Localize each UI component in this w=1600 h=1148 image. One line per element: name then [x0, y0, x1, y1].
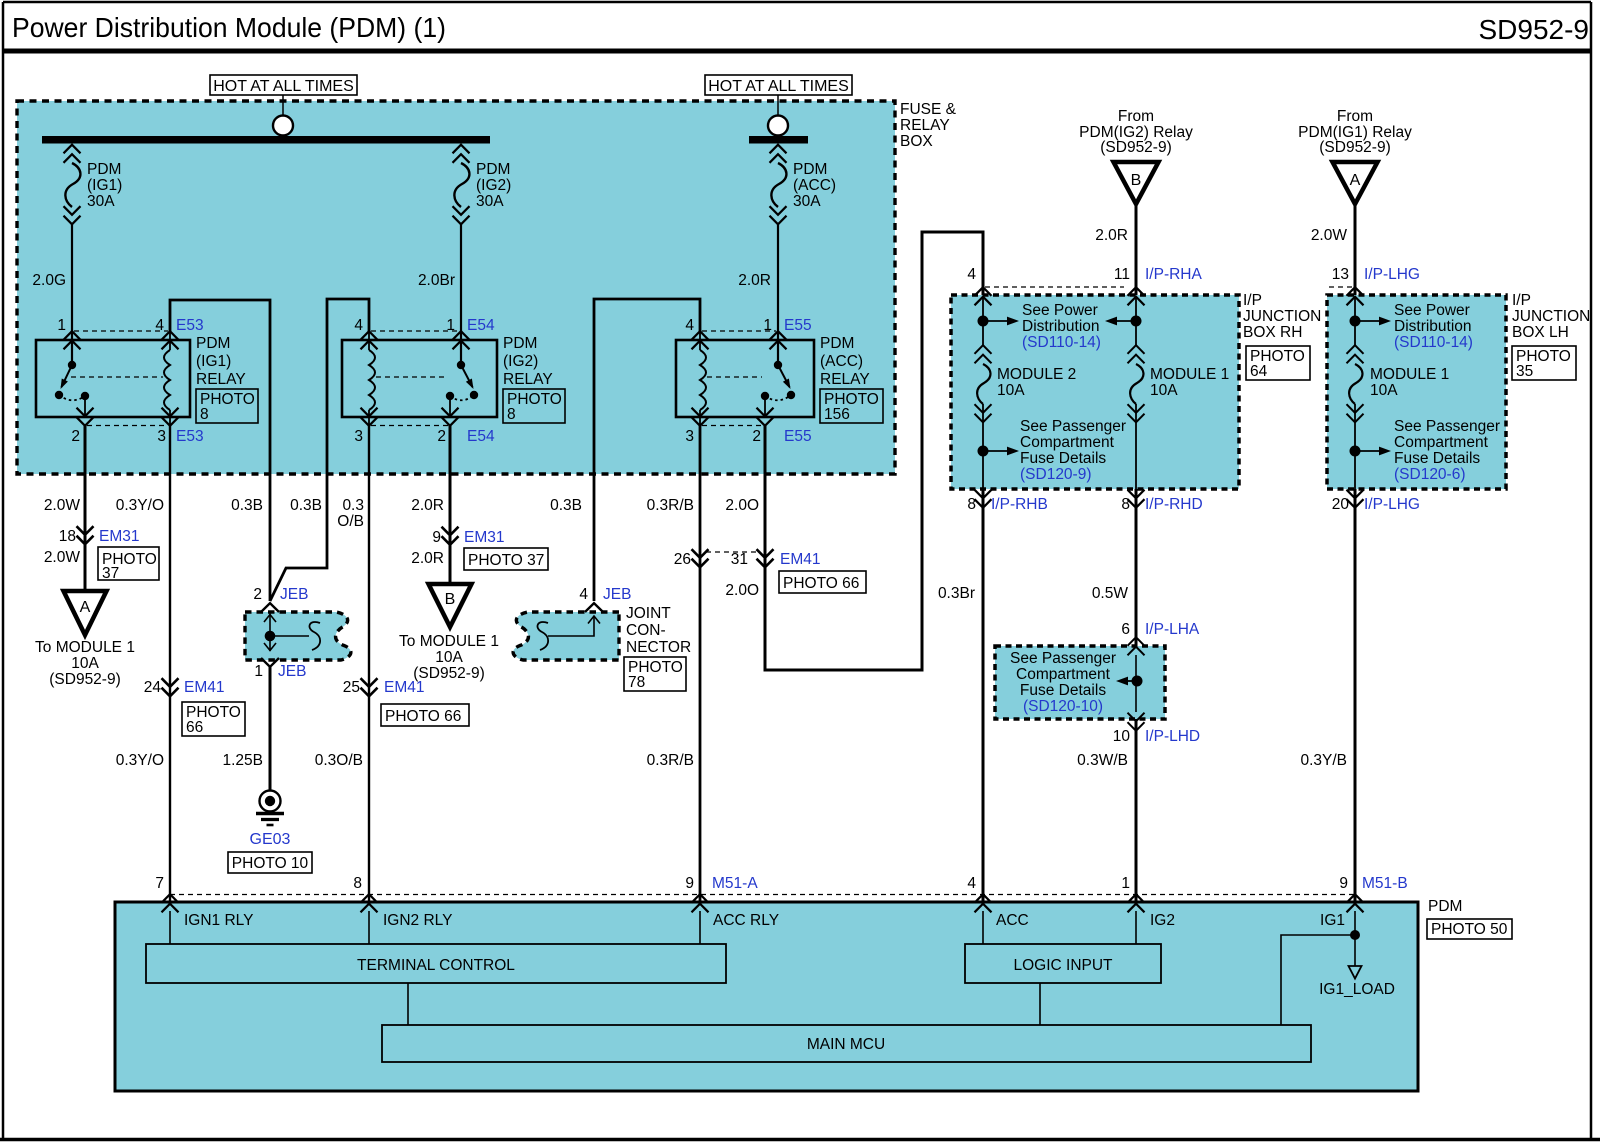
- svg-text:(IG2): (IG2): [476, 177, 511, 194]
- svg-text:(ACC): (ACC): [820, 353, 863, 370]
- svg-text:31: 31: [731, 551, 748, 568]
- svg-text:RELAY: RELAY: [900, 117, 950, 134]
- svg-text:10A: 10A: [1150, 382, 1178, 399]
- svg-text:1: 1: [763, 317, 772, 334]
- svg-text:I/P: I/P: [1243, 292, 1262, 309]
- svg-text:26: 26: [674, 551, 691, 568]
- svg-text:9: 9: [685, 875, 694, 892]
- svg-text:B: B: [445, 591, 456, 608]
- svg-text:0.3B: 0.3B: [290, 497, 322, 514]
- svg-text:0.3Br: 0.3Br: [938, 585, 975, 602]
- svg-text:EM41: EM41: [184, 679, 225, 696]
- svg-text:8: 8: [507, 406, 516, 423]
- svg-text:I/P-RHA: I/P-RHA: [1145, 266, 1203, 283]
- svg-text:FUSE &: FUSE &: [900, 101, 957, 118]
- svg-text:24: 24: [144, 679, 162, 696]
- svg-text:4: 4: [579, 586, 588, 603]
- svg-text:MODULE 1: MODULE 1: [1370, 366, 1449, 383]
- svg-text:PDM: PDM: [1428, 898, 1462, 915]
- svg-text:NECTOR: NECTOR: [626, 639, 691, 656]
- svg-text:10A: 10A: [71, 655, 99, 672]
- svg-text:BOX: BOX: [900, 133, 933, 150]
- svg-text:2: 2: [752, 428, 761, 445]
- svg-text:PDM: PDM: [503, 335, 537, 352]
- svg-text:0.3Y/O: 0.3Y/O: [116, 497, 164, 514]
- svg-text:PHOTO 66: PHOTO 66: [385, 708, 461, 725]
- svg-text:0.5W: 0.5W: [1092, 585, 1129, 602]
- svg-text:2: 2: [437, 428, 446, 445]
- svg-text:8: 8: [200, 406, 209, 423]
- svg-text:2.0R: 2.0R: [411, 550, 444, 567]
- svg-text:A: A: [80, 599, 91, 616]
- svg-text:I/P-RHD: I/P-RHD: [1145, 496, 1203, 513]
- svg-text:See Passenger: See Passenger: [1020, 418, 1126, 435]
- svg-text:30A: 30A: [87, 193, 115, 210]
- svg-text:0.3O/B: 0.3O/B: [315, 752, 363, 769]
- svg-text:0.3R/B: 0.3R/B: [647, 497, 694, 514]
- svg-text:1.25B: 1.25B: [222, 752, 263, 769]
- svg-text:2.0O: 2.0O: [725, 497, 759, 514]
- svg-text:PHOTO 10: PHOTO 10: [232, 855, 309, 872]
- svg-text:BOX LH: BOX LH: [1512, 324, 1569, 341]
- svg-text:1: 1: [446, 317, 455, 334]
- svg-text:3: 3: [685, 428, 694, 445]
- svg-text:(IG1): (IG1): [196, 353, 231, 370]
- svg-text:From: From: [1337, 108, 1373, 125]
- svg-text:Compartment: Compartment: [1020, 434, 1115, 451]
- svg-text:(SD952-9): (SD952-9): [1100, 139, 1172, 156]
- svg-text:PDM: PDM: [196, 335, 230, 352]
- svg-text:8: 8: [1121, 496, 1130, 513]
- svg-text:E54: E54: [467, 428, 495, 445]
- svg-text:0.3Y/O: 0.3Y/O: [116, 752, 164, 769]
- svg-text:CON-: CON-: [626, 622, 666, 639]
- svg-text:Power Distribution Module (PDM: Power Distribution Module (PDM) (1): [12, 12, 446, 43]
- svg-text:See Power: See Power: [1394, 302, 1470, 319]
- svg-text:2.0R: 2.0R: [411, 497, 444, 514]
- svg-text:A: A: [1350, 172, 1361, 189]
- svg-text:See Power: See Power: [1022, 302, 1098, 319]
- svg-text:IG1_LOAD: IG1_LOAD: [1319, 981, 1395, 998]
- svg-text:(SD110-14): (SD110-14): [1022, 334, 1101, 351]
- svg-text:See Passenger: See Passenger: [1010, 650, 1116, 667]
- svg-text:0.3W/B: 0.3W/B: [1077, 752, 1128, 769]
- svg-text:4: 4: [967, 875, 976, 892]
- svg-text:EM41: EM41: [384, 679, 425, 696]
- svg-text:EM31: EM31: [99, 528, 140, 545]
- svg-text:PDM: PDM: [476, 161, 510, 178]
- svg-text:4: 4: [685, 317, 694, 334]
- svg-text:0.3R/B: 0.3R/B: [647, 752, 694, 769]
- svg-text:I/P: I/P: [1512, 292, 1531, 309]
- svg-text:JUNCTION: JUNCTION: [1512, 308, 1590, 325]
- svg-text:EM41: EM41: [780, 551, 821, 568]
- svg-text:IGN1 RLY: IGN1 RLY: [184, 912, 254, 929]
- svg-text:I/P-LHD: I/P-LHD: [1145, 728, 1200, 745]
- svg-text:E53: E53: [176, 428, 204, 445]
- svg-text:13: 13: [1332, 266, 1349, 283]
- svg-text:10A: 10A: [997, 382, 1025, 399]
- svg-text:I/P-LHG: I/P-LHG: [1364, 266, 1420, 283]
- svg-text:Fuse Details: Fuse Details: [1020, 682, 1106, 699]
- svg-text:35: 35: [1516, 363, 1533, 380]
- svg-text:MODULE 1: MODULE 1: [1150, 366, 1229, 383]
- svg-text:0.3Y/B: 0.3Y/B: [1300, 752, 1347, 769]
- svg-text:9: 9: [432, 529, 441, 546]
- svg-text:78: 78: [628, 674, 645, 691]
- svg-text:3: 3: [157, 428, 166, 445]
- svg-text:7: 7: [155, 875, 164, 892]
- svg-text:10A: 10A: [435, 649, 463, 666]
- svg-text:EM31: EM31: [464, 529, 505, 546]
- svg-text:1: 1: [254, 663, 263, 680]
- svg-text:To MODULE 1: To MODULE 1: [35, 639, 135, 656]
- svg-text:(SD120-6): (SD120-6): [1394, 466, 1466, 483]
- svg-text:RELAY: RELAY: [196, 371, 246, 388]
- svg-text:MODULE 2: MODULE 2: [997, 366, 1076, 383]
- svg-text:PHOTO 37: PHOTO 37: [468, 552, 544, 569]
- svg-text:Fuse Details: Fuse Details: [1394, 450, 1480, 467]
- svg-text:PDM: PDM: [793, 161, 827, 178]
- svg-text:156: 156: [824, 406, 850, 423]
- svg-text:2: 2: [71, 428, 80, 445]
- svg-text:HOT AT ALL TIMES: HOT AT ALL TIMES: [213, 78, 354, 95]
- svg-text:1: 1: [1121, 875, 1130, 892]
- svg-text:PDM: PDM: [87, 161, 121, 178]
- svg-text:Distribution: Distribution: [1022, 318, 1100, 335]
- svg-text:I/P-LHA: I/P-LHA: [1145, 621, 1200, 638]
- svg-text:E55: E55: [784, 428, 812, 445]
- svg-text:(IG1): (IG1): [87, 177, 122, 194]
- svg-text:Fuse Details: Fuse Details: [1020, 450, 1106, 467]
- svg-text:4: 4: [967, 266, 976, 283]
- svg-text:2.0G: 2.0G: [32, 272, 66, 289]
- svg-text:MAIN MCU: MAIN MCU: [807, 1036, 885, 1053]
- svg-text:IGN2 RLY: IGN2 RLY: [383, 912, 453, 929]
- svg-text:JUNCTION: JUNCTION: [1243, 308, 1321, 325]
- svg-text:2.0Br: 2.0Br: [418, 272, 455, 289]
- svg-text:PDM: PDM: [820, 335, 854, 352]
- svg-text:4: 4: [354, 317, 363, 334]
- svg-text:11: 11: [1114, 266, 1130, 283]
- svg-text:2.0W: 2.0W: [1311, 227, 1348, 244]
- svg-text:4: 4: [155, 317, 164, 334]
- svg-text:E54: E54: [467, 317, 495, 334]
- svg-text:(SD110-14): (SD110-14): [1394, 334, 1473, 351]
- svg-text:PHOTO 50: PHOTO 50: [1431, 921, 1508, 938]
- svg-text:20: 20: [1332, 496, 1350, 513]
- svg-text:2.0W: 2.0W: [44, 549, 81, 566]
- svg-text:1: 1: [57, 317, 66, 334]
- svg-text:2.0R: 2.0R: [1095, 227, 1128, 244]
- svg-text:M51-B: M51-B: [1362, 875, 1408, 892]
- svg-text:6: 6: [1121, 621, 1130, 638]
- svg-text:BOX RH: BOX RH: [1243, 324, 1302, 341]
- svg-text:10: 10: [1113, 728, 1131, 745]
- svg-text:10A: 10A: [1370, 382, 1398, 399]
- svg-text:3: 3: [354, 428, 363, 445]
- svg-text:I/P-LHG: I/P-LHG: [1364, 496, 1420, 513]
- svg-text:PHOTO 66: PHOTO 66: [783, 575, 859, 592]
- svg-text:LOGIC INPUT: LOGIC INPUT: [1013, 957, 1113, 974]
- svg-text:ACC RLY: ACC RLY: [713, 912, 779, 929]
- svg-text:(SD120-10): (SD120-10): [1023, 698, 1103, 715]
- svg-text:2.0W: 2.0W: [44, 497, 81, 514]
- svg-text:8: 8: [353, 875, 362, 892]
- svg-text:37: 37: [102, 565, 119, 582]
- svg-text:JEB: JEB: [603, 586, 631, 603]
- svg-text:ACC: ACC: [996, 912, 1029, 929]
- svg-text:0.3B: 0.3B: [231, 497, 263, 514]
- svg-text:30A: 30A: [476, 193, 504, 210]
- svg-text:JOINT: JOINT: [626, 605, 671, 622]
- svg-text:8: 8: [967, 496, 976, 513]
- svg-text:RELAY: RELAY: [503, 371, 553, 388]
- svg-text:JEB: JEB: [280, 586, 308, 603]
- svg-text:Distribution: Distribution: [1394, 318, 1472, 335]
- svg-text:2.0O: 2.0O: [725, 582, 759, 599]
- svg-text:(SD120-9): (SD120-9): [1020, 466, 1092, 483]
- svg-text:SD952-9: SD952-9: [1478, 14, 1589, 45]
- svg-text:25: 25: [343, 679, 360, 696]
- svg-text:IG2: IG2: [1150, 912, 1175, 929]
- svg-text:(SD952-9): (SD952-9): [1319, 139, 1391, 156]
- svg-text:TERMINAL CONTROL: TERMINAL CONTROL: [357, 957, 515, 974]
- svg-text:(IG2): (IG2): [503, 353, 538, 370]
- svg-text:See Passenger: See Passenger: [1394, 418, 1500, 435]
- svg-text:66: 66: [186, 719, 203, 736]
- svg-text:2.0R: 2.0R: [738, 272, 771, 289]
- svg-text:(SD952-9): (SD952-9): [49, 671, 121, 688]
- svg-text:O/B: O/B: [337, 513, 364, 530]
- svg-text:0.3: 0.3: [342, 497, 364, 514]
- svg-text:JEB: JEB: [278, 663, 306, 680]
- svg-text:From: From: [1118, 108, 1154, 125]
- svg-text:B: B: [1131, 172, 1142, 189]
- svg-text:RELAY: RELAY: [820, 371, 870, 388]
- svg-text:HOT AT ALL TIMES: HOT AT ALL TIMES: [708, 78, 849, 95]
- svg-text:M51-A: M51-A: [712, 875, 758, 892]
- svg-text:To MODULE 1: To MODULE 1: [399, 633, 499, 650]
- svg-text:Compartment: Compartment: [1016, 666, 1111, 683]
- svg-text:30A: 30A: [793, 193, 821, 210]
- svg-text:9: 9: [1339, 875, 1348, 892]
- svg-text:18: 18: [59, 528, 76, 545]
- svg-text:2: 2: [253, 586, 262, 603]
- svg-text:E55: E55: [784, 317, 812, 334]
- svg-text:64: 64: [1250, 363, 1268, 380]
- svg-text:GE03: GE03: [250, 831, 291, 848]
- svg-text:E53: E53: [176, 317, 204, 334]
- svg-text:I/P-RHB: I/P-RHB: [991, 496, 1048, 513]
- svg-text:(ACC): (ACC): [793, 177, 836, 194]
- svg-text:0.3B: 0.3B: [550, 497, 582, 514]
- svg-text:IG1: IG1: [1320, 912, 1345, 929]
- svg-text:Compartment: Compartment: [1394, 434, 1489, 451]
